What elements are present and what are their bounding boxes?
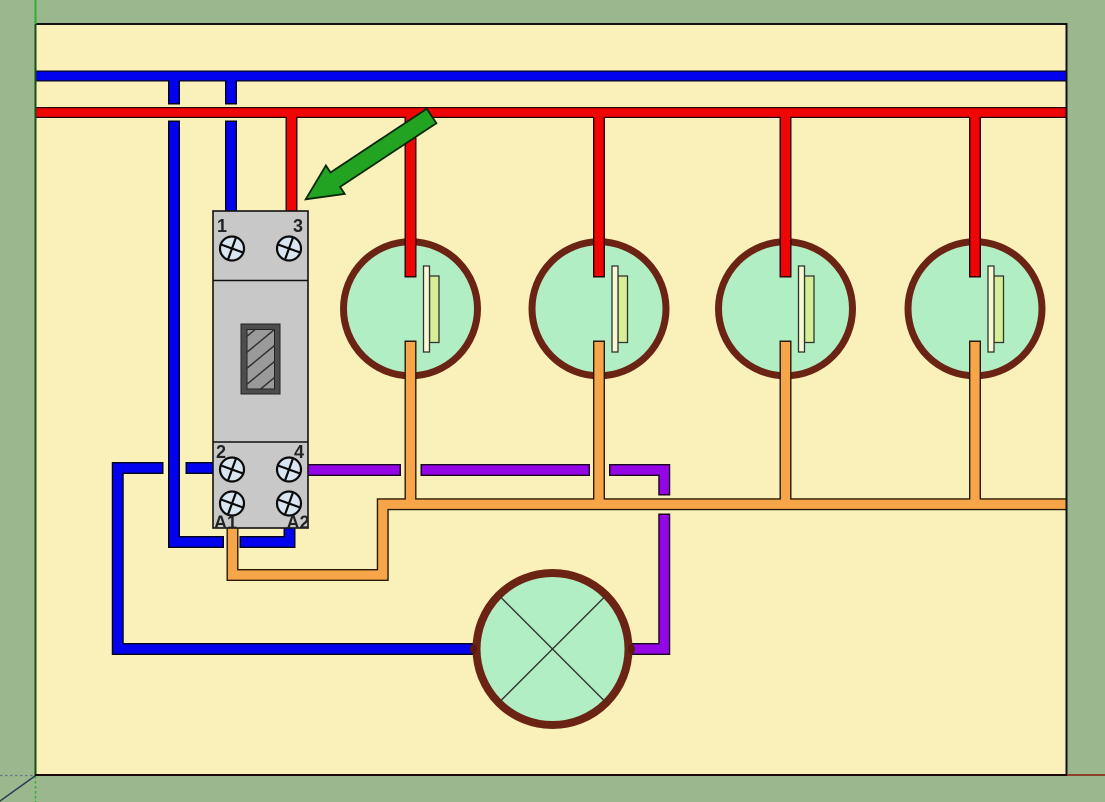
svg-text:3: 3 <box>293 216 303 236</box>
svg-text:4: 4 <box>294 442 304 462</box>
svg-text:2: 2 <box>216 442 226 462</box>
svg-text:1: 1 <box>217 216 227 236</box>
svg-text:A2: A2 <box>287 513 310 533</box>
svg-text:A1: A1 <box>214 513 237 533</box>
